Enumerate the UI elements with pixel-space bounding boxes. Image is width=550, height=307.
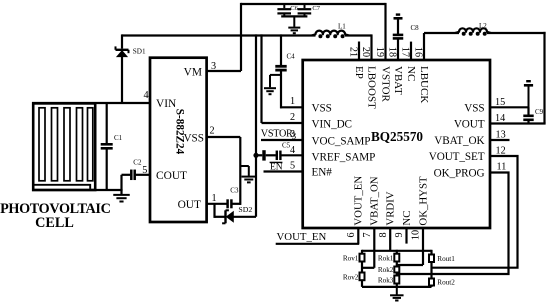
svg-text:VRDIV: VRDIV	[385, 191, 397, 225]
svg-text:SD1: SD1	[133, 48, 146, 56]
svg-text:VOUT_EN: VOUT_EN	[353, 176, 365, 226]
svg-text:9: 9	[394, 232, 405, 237]
svg-text:17: 17	[399, 47, 410, 57]
svg-text:Rov2: Rov2	[343, 274, 359, 282]
svg-text:2: 2	[210, 126, 215, 137]
svg-text:VSTOR: VSTOR	[379, 66, 391, 103]
svg-text:NC: NC	[405, 66, 417, 81]
svg-text:12: 12	[496, 146, 506, 157]
svg-text:LBUCK: LBUCK	[418, 66, 430, 103]
svg-text:C8: C8	[411, 24, 420, 32]
svg-text:3: 3	[292, 131, 297, 141]
svg-text:1: 1	[212, 193, 217, 204]
svg-text:VOC_SAMP: VOC_SAMP	[312, 135, 371, 147]
svg-text:C6: C6	[290, 5, 298, 12]
svg-text:EN: EN	[270, 162, 283, 172]
svg-text:VSS: VSS	[183, 132, 204, 144]
svg-text:21: 21	[347, 47, 358, 57]
svg-text:VREF_SAMP: VREF_SAMP	[312, 151, 376, 163]
svg-text:VIN_DC: VIN_DC	[312, 118, 352, 130]
svg-text:3: 3	[211, 61, 216, 72]
svg-text:OUT: OUT	[178, 199, 201, 211]
svg-text:14: 14	[495, 113, 505, 124]
svg-text:19: 19	[374, 47, 385, 57]
svg-text:VOUT: VOUT	[454, 119, 485, 131]
svg-text:16: 16	[412, 47, 423, 57]
svg-text:6: 6	[346, 232, 357, 237]
svg-text:C4: C4	[287, 52, 296, 60]
svg-text:Rok3: Rok3	[378, 277, 394, 285]
svg-text:OK_HYST: OK_HYST	[417, 176, 429, 226]
svg-text:C7: C7	[312, 5, 320, 12]
svg-text:VSTOR: VSTOR	[261, 129, 293, 140]
svg-text:4: 4	[144, 90, 149, 101]
svg-text:Rok2: Rok2	[378, 266, 394, 274]
svg-text:20: 20	[360, 47, 371, 57]
svg-text:1: 1	[290, 96, 295, 107]
svg-text:Rov1: Rov1	[343, 255, 359, 263]
svg-text:VBAT: VBAT	[392, 66, 404, 95]
svg-text:VM: VM	[184, 67, 202, 79]
svg-text:LBOOST: LBOOST	[365, 66, 377, 109]
svg-text:5: 5	[142, 165, 147, 176]
svg-text:11: 11	[497, 162, 507, 173]
svg-text:7: 7	[362, 232, 373, 237]
svg-text:VOUT_SET: VOUT_SET	[429, 151, 485, 163]
svg-text:4: 4	[290, 145, 295, 156]
svg-text:13: 13	[496, 130, 506, 141]
svg-text:COUT: COUT	[156, 170, 187, 182]
svg-text:8: 8	[378, 232, 389, 237]
svg-text:OK_PROG: OK_PROG	[434, 167, 485, 179]
svg-text:C3: C3	[230, 187, 239, 195]
svg-text:VOUT_EN: VOUT_EN	[277, 231, 327, 243]
svg-text:C1: C1	[114, 134, 123, 142]
svg-text:CELL: CELL	[35, 215, 74, 231]
svg-text:C5: C5	[282, 141, 291, 149]
svg-text:5: 5	[290, 161, 295, 172]
svg-text:2: 2	[290, 112, 295, 123]
svg-text:BQ25570: BQ25570	[371, 129, 423, 144]
svg-text:C2: C2	[133, 159, 142, 167]
svg-text:Rok1: Rok1	[378, 255, 394, 263]
svg-text:VBAT_OK: VBAT_OK	[434, 135, 484, 147]
svg-text:L2: L2	[479, 22, 487, 30]
svg-text:VSS: VSS	[312, 102, 332, 114]
svg-text:EP: EP	[353, 66, 365, 79]
svg-text:VSS: VSS	[464, 102, 484, 114]
svg-text:C9: C9	[535, 108, 544, 116]
svg-text:L1: L1	[338, 22, 346, 30]
svg-text:10: 10	[411, 230, 422, 240]
svg-text:Rout2: Rout2	[437, 278, 455, 286]
svg-text:EN#: EN#	[312, 167, 333, 179]
svg-text:15: 15	[495, 97, 505, 108]
svg-text:VBAT_ON: VBAT_ON	[369, 176, 381, 225]
svg-text:18: 18	[386, 47, 397, 57]
svg-text:NC: NC	[401, 211, 413, 226]
svg-text:Rout1: Rout1	[437, 255, 455, 263]
svg-text:VIN: VIN	[156, 98, 176, 110]
svg-text:SD2: SD2	[238, 205, 252, 214]
